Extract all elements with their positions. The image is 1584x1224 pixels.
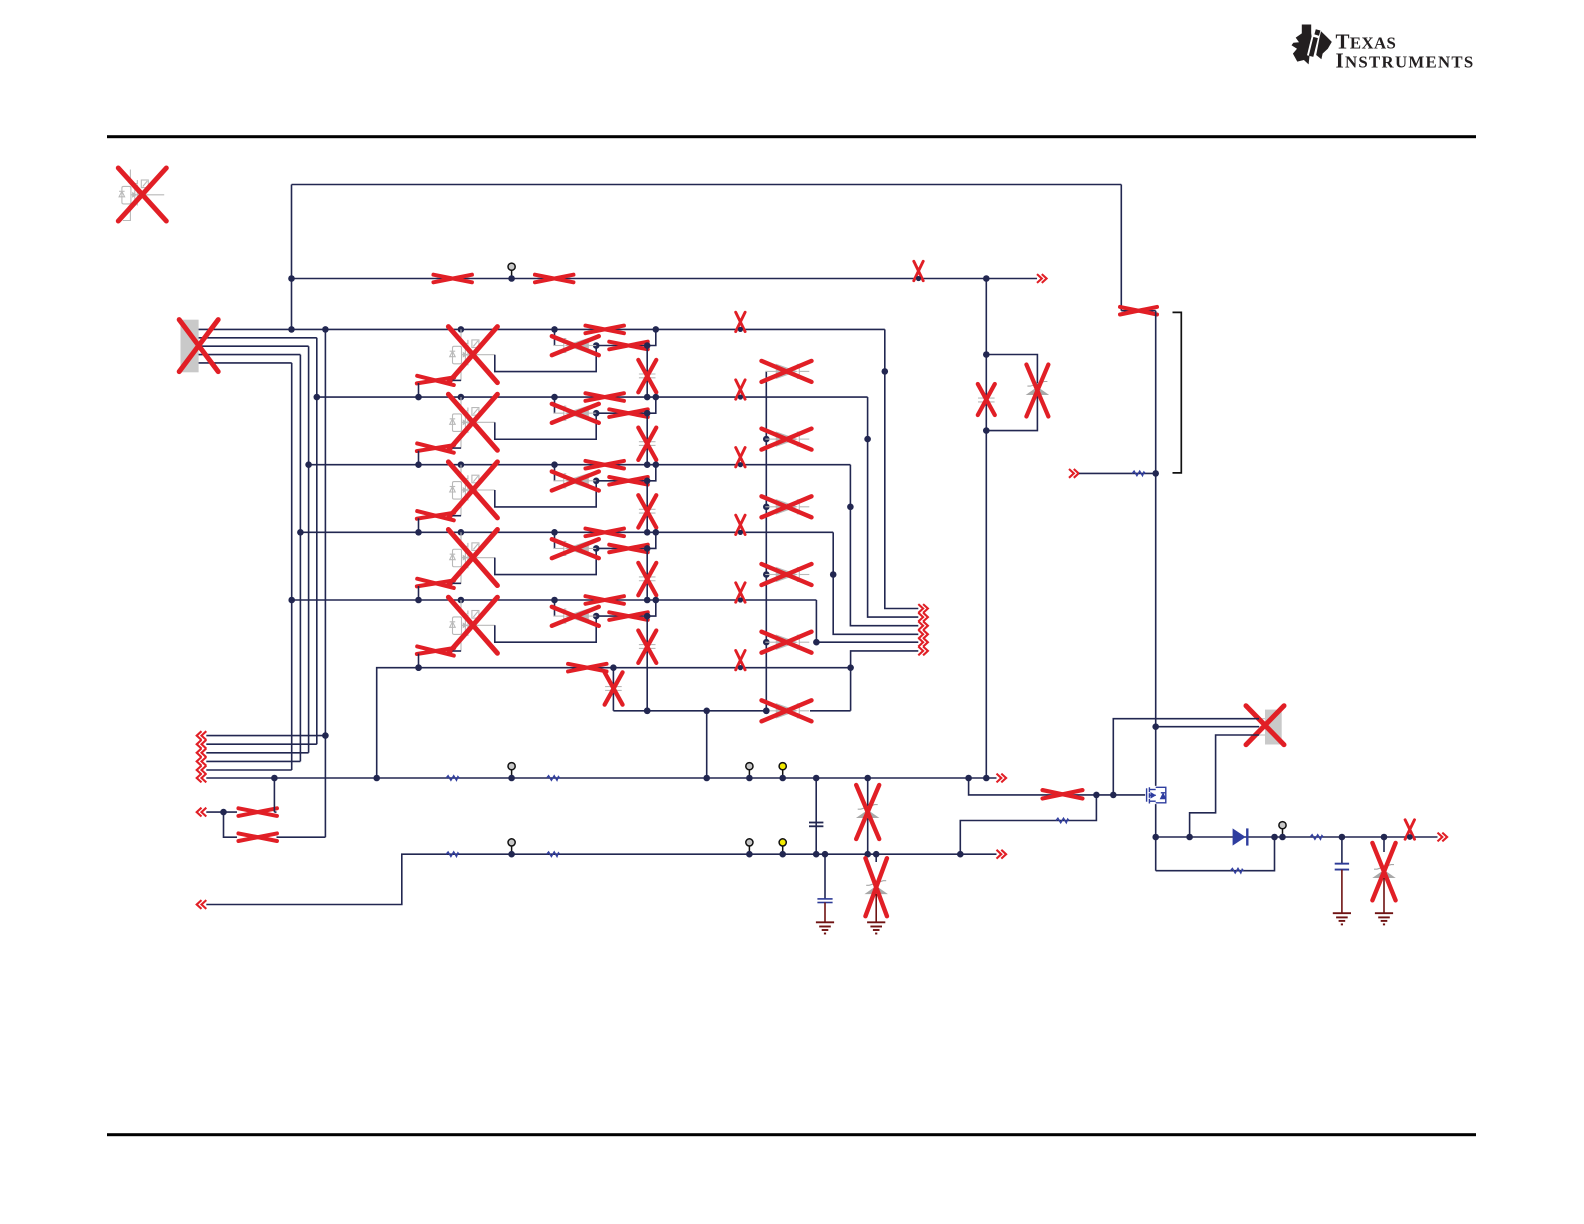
svg-text:INSTRUMENTS: INSTRUMENTS <box>1336 48 1475 72</box>
